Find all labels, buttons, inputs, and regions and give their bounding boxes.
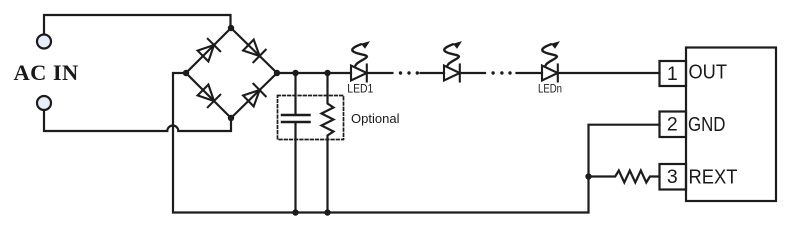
svg-text:Optional: Optional [351,111,400,126]
svg-text:REXT: REXT [689,165,738,188]
svg-text:LED1: LED1 [347,84,373,96]
svg-text:1: 1 [667,63,678,85]
svg-text:2: 2 [667,114,678,136]
svg-text:OUT: OUT [689,61,728,84]
svg-text:LEDn: LEDn [538,84,562,96]
svg-text:GND: GND [688,113,726,136]
svg-text:3: 3 [667,166,678,188]
svg-text:AC IN: AC IN [14,60,79,85]
